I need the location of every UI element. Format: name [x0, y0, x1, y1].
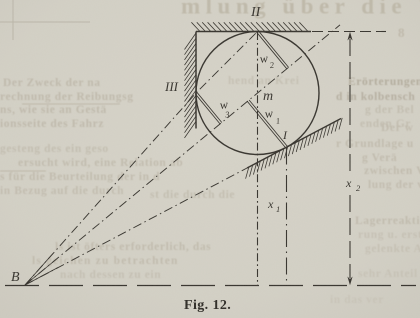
faint page frame marks top-left: [0, 0, 90, 40]
left wall hatching: [185, 33, 197, 138]
vertical centerline through II, m: [257, 32, 259, 286]
arrow down at bottom of x2: [347, 277, 352, 286]
circle (roller) m: [196, 32, 319, 155]
dimension line x2: [349, 39, 351, 176]
solid ray fan at B: [25, 254, 58, 286]
dash-dot ray B along inclined wall to I: [25, 168, 247, 285]
inclined wall surface line: [247, 119, 341, 169]
inclined wall hatching: [246, 118, 343, 179]
top wall surface line: [196, 31, 311, 33]
arrow up at top of x2: [347, 32, 352, 41]
bottom dashed baseline through B: [5, 285, 416, 287]
label w2: [259, 50, 276, 71]
spoke w1 from I to line B-m: [247, 100, 287, 148]
label w3: [219, 97, 230, 120]
label w1: [264, 105, 281, 127]
top dashed reference line: [312, 31, 386, 33]
dimension line x1 from contact I down to baseline: [286, 148, 288, 286]
dash-dot ray B to III to II: [25, 32, 258, 286]
spoke w2 from II to line B-m: [257, 31, 289, 69]
left wall surface line: [195, 32, 197, 129]
dash-dot ray B through m extended: [25, 25, 340, 285]
spoke w3 from III to line B-m: [195, 92, 222, 124]
top wall hatching: [191, 22, 308, 31]
